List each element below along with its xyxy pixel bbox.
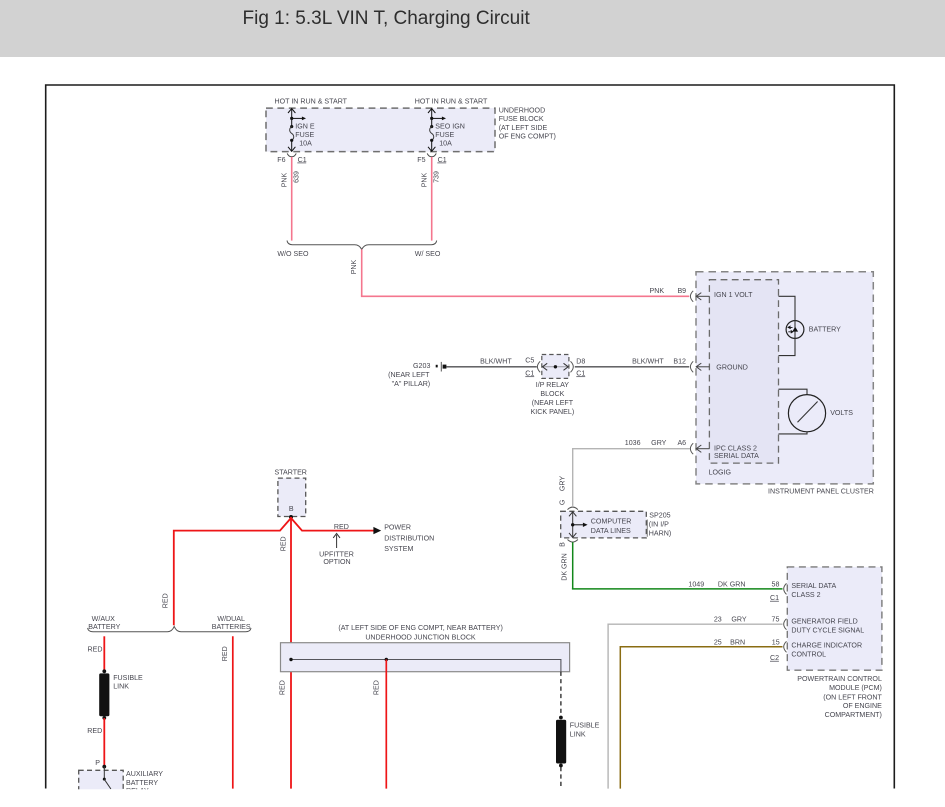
- svg-text:DISTRIBUTION: DISTRIBUTION: [384, 534, 434, 542]
- svg-text:W/ SEO: W/ SEO: [415, 250, 441, 258]
- svg-text:STARTER: STARTER: [274, 469, 306, 477]
- label RED (above branch): [334, 523, 349, 531]
- connector cavity under F6: [287, 153, 296, 156]
- svg-text:10A: 10A: [299, 140, 312, 148]
- svg-text:KICK PANEL): KICK PANEL): [531, 408, 575, 416]
- svg-text:G203: G203: [413, 362, 430, 370]
- svg-text:739: 739: [433, 171, 441, 183]
- label POWER DISTRIBUTION SYSTEM: [384, 524, 434, 554]
- svg-text:W/AUX: W/AUX: [92, 615, 116, 623]
- wire RED starter main vertical: [290, 517, 292, 789]
- svg-text:BLK/WHT: BLK/WHT: [632, 358, 664, 366]
- starter box: [278, 478, 306, 516]
- wire BRN to PCM 15: [620, 647, 782, 789]
- svg-text:639: 639: [293, 171, 301, 183]
- cluster logic inner box: [709, 280, 778, 463]
- pin A6 connector: [690, 443, 709, 454]
- svg-text:58: 58: [772, 580, 780, 588]
- pin label F6 C1: [277, 156, 306, 164]
- SP205 bottom connector arc: [568, 540, 578, 543]
- svg-text:C2: C2: [770, 654, 779, 662]
- label I/P RELAY BLOCK (NEAR LEFT KICK PANEL): [531, 381, 575, 416]
- svg-text:OF ENG COMPT): OF ENG COMPT): [499, 132, 556, 140]
- label STARTER: [274, 469, 306, 477]
- label FUSIBLE LINK: [113, 674, 143, 691]
- label BLK/WHT (left): [480, 358, 512, 366]
- svg-text:C1: C1: [525, 369, 534, 377]
- svg-text:(NEAR LEFT: (NEAR LEFT: [388, 371, 430, 379]
- underhood fuse block box: [266, 108, 495, 152]
- svg-text:(ON LEFT FRONT: (ON LEFT FRONT: [823, 693, 882, 701]
- label GROUND: [716, 363, 748, 371]
- wire PNK 739: [431, 157, 433, 241]
- pin 75 connector arc: [784, 619, 787, 630]
- svg-text:10A: 10A: [439, 140, 452, 148]
- label HOT IN RUN & START (left): [275, 98, 348, 106]
- label pin P: [95, 759, 100, 767]
- svg-text:RED: RED: [221, 646, 229, 661]
- label SERIAL DATA CLASS 2: [791, 582, 836, 599]
- svg-text:RED: RED: [87, 727, 102, 735]
- wire DK GRN vertical: [572, 542, 574, 589]
- svg-text:"A" PILLAR): "A" PILLAR): [392, 380, 431, 388]
- node fusible link 2 bottom: [559, 764, 563, 768]
- svg-text:SEO IGN: SEO IGN: [435, 123, 465, 131]
- wire RED junction to bottom: [385, 660, 387, 789]
- svg-text:23: 23: [714, 616, 722, 624]
- upfitter option arrow: [333, 534, 340, 549]
- label 739: [433, 171, 441, 183]
- svg-text:75: 75: [772, 616, 780, 624]
- label LOGIG: [709, 469, 731, 477]
- wire RED w/aux battery: [103, 636, 105, 671]
- svg-text:BATTERY: BATTERY: [809, 325, 841, 333]
- wire RED w/dual batteries: [232, 636, 234, 788]
- label RED (vertical, junction wire): [373, 680, 381, 695]
- label PNK B9: [650, 287, 687, 295]
- svg-text:F6: F6: [277, 156, 285, 164]
- wire BLK/WHT into B12 with label: [632, 358, 686, 366]
- svg-text:25: 25: [714, 639, 722, 647]
- svg-text:1049: 1049: [688, 580, 704, 588]
- label INSTRUMENT PANEL CLUSTER: [768, 488, 874, 496]
- svg-text:C1: C1: [576, 369, 585, 377]
- label GRY (vertical): [559, 476, 567, 492]
- svg-text:HOT IN RUN & START: HOT IN RUN & START: [415, 98, 488, 106]
- pin B12 connector: [690, 361, 709, 372]
- ground G203 stud symbol: [436, 362, 447, 372]
- svg-text:VOLTS: VOLTS: [830, 409, 853, 417]
- svg-text:GRY: GRY: [651, 439, 667, 447]
- svg-text:PNK: PNK: [350, 259, 358, 274]
- arrow to power distribution system: [373, 527, 381, 534]
- svg-text:(NEAR LEFT: (NEAR LEFT: [532, 399, 574, 407]
- svg-text:OF ENGINE: OF ENGINE: [843, 702, 882, 710]
- wire DK GRN horizontal to PCM 58: [572, 588, 783, 590]
- I/P relay block connector right arc: [571, 361, 574, 372]
- svg-text:POWER: POWER: [384, 524, 411, 532]
- relay switch inside: [103, 767, 111, 789]
- label DK GRN (vertical): [561, 553, 569, 581]
- svg-text:PNK: PNK: [280, 172, 288, 187]
- svg-text:B: B: [289, 505, 294, 513]
- svg-text:LINK: LINK: [570, 731, 586, 739]
- I/P relay block box: [542, 355, 569, 379]
- SP205 top connector arc: [568, 507, 578, 510]
- svg-text:C5: C5: [525, 356, 534, 364]
- svg-text:HARN): HARN): [649, 529, 671, 537]
- node fusible link top: [102, 669, 106, 673]
- svg-text:UNDERHOOD JUNCTION BLOCK: UNDERHOOD JUNCTION BLOCK: [365, 633, 476, 641]
- svg-text:G: G: [558, 500, 566, 506]
- label UPFITTER OPTION: [319, 550, 354, 566]
- wire BLK/WHT G203 to relay block: [446, 366, 536, 368]
- svg-text:P: P: [95, 759, 100, 767]
- svg-text:RED: RED: [278, 680, 286, 695]
- label pin G (vertical): [558, 500, 566, 506]
- svg-text:GROUND: GROUND: [716, 363, 748, 371]
- label UNDERHOOD FUSE BLOCK (AT LEFT SIDE OF ENG COMPT): [499, 107, 556, 141]
- label RED: [88, 645, 103, 653]
- svg-text:DUTY CYCLE SIGNAL: DUTY CYCLE SIGNAL: [791, 627, 864, 635]
- auxiliary battery relay box: [79, 770, 124, 794]
- label 639: [293, 171, 301, 183]
- pin B9 connector: [690, 291, 709, 302]
- svg-text:INSTRUMENT PANEL CLUSTER: INSTRUMENT PANEL CLUSTER: [768, 488, 874, 496]
- svg-text:SERIAL DATA: SERIAL DATA: [714, 452, 759, 460]
- svg-text:RED: RED: [334, 523, 349, 531]
- svg-text:GRY: GRY: [559, 476, 567, 492]
- label W/DUAL BATTERIES: [212, 615, 251, 631]
- node starter B terminal: [289, 515, 293, 519]
- svg-text:D8: D8: [576, 357, 585, 365]
- label RED: [87, 727, 102, 735]
- wire GRY to PCM 75: [608, 624, 782, 788]
- svg-text:GRY: GRY: [731, 616, 747, 624]
- svg-text:F5: F5: [417, 156, 425, 164]
- label CHARGE INDICATOR CONTROL: [791, 642, 862, 659]
- svg-text:W/O SEO: W/O SEO: [277, 250, 309, 258]
- svg-text:RED: RED: [373, 680, 381, 695]
- battery split brace: [88, 626, 251, 631]
- svg-text:BRN: BRN: [730, 639, 745, 647]
- svg-text:LOGIG: LOGIG: [709, 469, 731, 477]
- computer data lines box SP205: [561, 511, 647, 538]
- wire to battery indicator: [779, 296, 796, 355]
- svg-text:CONTROL: CONTROL: [791, 651, 826, 659]
- svg-text:COMPUTER: COMPUTER: [591, 518, 632, 526]
- svg-text:DK GRN: DK GRN: [718, 580, 746, 588]
- svg-text:DATA LINES: DATA LINES: [591, 527, 631, 535]
- label (AT LEFT SIDE OF ENG COMPT, NEAR BATTERY): [338, 624, 503, 632]
- svg-text:Fig 1: 5.3L VIN T, Charging Ci: Fig 1: 5.3L VIN T, Charging Circuit: [243, 8, 531, 29]
- pin label D8 C1: [576, 357, 585, 377]
- svg-text:1036: 1036: [625, 439, 641, 447]
- label 1036 GRY A6: [625, 439, 686, 447]
- page frame border: [46, 85, 895, 789]
- node junction red 2: [385, 658, 388, 661]
- svg-text:AUXILIARY: AUXILIARY: [126, 770, 163, 778]
- label HOT IN RUN & START (right): [415, 98, 488, 106]
- volts gauge: [788, 395, 825, 432]
- dashed wire below fusible link 2: [560, 767, 562, 789]
- I/P relay block connector left arc: [537, 361, 540, 372]
- svg-text:COMPARTMENT): COMPARTMENT): [825, 711, 882, 719]
- fuse F6 IGN E FUSE 10A: [288, 109, 315, 152]
- merge brace W/O SEO / W SEO: [287, 241, 437, 250]
- label UNDERHOOD JUNCTION BLOCK: [365, 633, 476, 641]
- pin 58 connector arc + label C1: [770, 583, 787, 601]
- label PNK (left of 739): [420, 172, 428, 187]
- svg-text:FUSE BLOCK: FUSE BLOCK: [499, 115, 544, 123]
- svg-text:LINK: LINK: [113, 682, 129, 690]
- clip-bottom: [0, 789, 945, 807]
- svg-text:IGN 1 VOLT: IGN 1 VOLT: [714, 291, 753, 299]
- svg-text:FUSE: FUSE: [435, 131, 454, 139]
- underhood junction block box: [281, 643, 570, 672]
- label IPC CLASS 2 SERIAL DATA: [714, 444, 759, 459]
- label POWERTRAIN CONTROL MODULE (PCM): [797, 675, 882, 719]
- svg-text:15: 15: [772, 639, 780, 647]
- node P terminal: [102, 765, 106, 769]
- svg-text:PNK: PNK: [420, 172, 428, 187]
- svg-text:I/P RELAY: I/P RELAY: [536, 381, 570, 389]
- svg-text:SERIAL DATA: SERIAL DATA: [791, 582, 836, 590]
- wire PNK vertical to elbow: [361, 249, 363, 296]
- fuse F5 SEO IGN FUSE 10A: [428, 109, 465, 152]
- svg-text:RED: RED: [88, 645, 103, 653]
- node junction red 1: [289, 658, 292, 661]
- svg-text:RED: RED: [162, 593, 170, 608]
- svg-text:FUSIBLE: FUSIBLE: [570, 722, 600, 730]
- node fusible link 2 top: [559, 716, 563, 720]
- svg-text:SYSTEM: SYSTEM: [384, 545, 413, 553]
- label SP205 (IN I/P HARN): [647, 512, 671, 538]
- wire RED branch left with chamfer: [174, 518, 291, 625]
- svg-text:(AT LEFT SIDE: (AT LEFT SIDE: [499, 124, 548, 132]
- wire PNK 639: [291, 157, 293, 241]
- label 1049 DK GRN 58: [688, 580, 779, 588]
- svg-text:B9: B9: [677, 287, 686, 295]
- label GENERATOR FIELD DUTY CYCLE SIGNAL: [791, 618, 864, 635]
- wire BLK/WHT relay block to cluster: [575, 366, 689, 368]
- label FUSIBLE LINK: [570, 722, 600, 739]
- svg-text:HOT IN RUN & START: HOT IN RUN & START: [275, 98, 348, 106]
- wire to volts gauge: [779, 389, 808, 434]
- label W/ SEO: [415, 250, 441, 258]
- svg-text:(AT LEFT SIDE OF ENG COMPT, NE: (AT LEFT SIDE OF ENG COMPT, NEAR BATTERY…: [338, 624, 503, 632]
- label RED (vertical): [221, 646, 229, 661]
- label VOLTS: [830, 409, 853, 417]
- svg-text:A6: A6: [677, 439, 686, 447]
- label W/O SEO: [277, 250, 309, 258]
- svg-text:FUSE: FUSE: [295, 131, 314, 139]
- header bar: [0, 0, 945, 57]
- label PNK (vertical): [350, 259, 358, 274]
- wire PNK horizontal to cluster: [361, 295, 689, 297]
- label BATTERY: [809, 325, 841, 333]
- svg-text:BATTERY: BATTERY: [88, 623, 120, 631]
- pin 15 connector arc + label C2: [770, 641, 787, 662]
- wire RED below fusible link: [103, 718, 105, 766]
- svg-text:IGN E: IGN E: [295, 123, 315, 131]
- label pin B: [289, 505, 294, 513]
- svg-text:W/DUAL: W/DUAL: [217, 615, 245, 623]
- label RED (vertical, starter wire): [279, 536, 287, 551]
- label pin B (vertical): [558, 542, 566, 547]
- dashed link wire from junction block: [560, 672, 562, 716]
- wire RED branch right to power distribution: [291, 518, 375, 531]
- powertrain control module box: [787, 567, 882, 670]
- svg-text:(IN I/P: (IN I/P: [649, 521, 669, 529]
- instrument panel cluster outer box: [696, 272, 873, 484]
- svg-text:POWERTRAIN CONTROL: POWERTRAIN CONTROL: [797, 675, 882, 683]
- label PNK (left of 639): [280, 172, 288, 187]
- svg-text:DK GRN: DK GRN: [561, 553, 569, 581]
- fusible link F1: [99, 673, 109, 716]
- svg-text:BATTERIES: BATTERIES: [212, 623, 251, 631]
- svg-text:OPTION: OPTION: [323, 558, 350, 566]
- label AUXILIARY BATTERY RELAY: [126, 770, 163, 795]
- label W/AUX BATTERY: [88, 615, 120, 631]
- svg-text:BLK/WHT: BLK/WHT: [480, 358, 512, 366]
- label RED (vertical, starter below block): [278, 680, 286, 695]
- label 25 BRN 15: [714, 639, 780, 647]
- node fusible link bottom: [102, 716, 106, 720]
- svg-text:GENERATOR FIELD: GENERATOR FIELD: [791, 618, 857, 626]
- label G203 (NEAR LEFT "A" PILLAR): [388, 362, 430, 388]
- svg-text:BATTERY: BATTERY: [126, 779, 158, 787]
- junction block bus bar: [291, 660, 561, 672]
- label 23 GRY 75: [714, 616, 780, 624]
- wire GRY from cluster A6: [573, 449, 690, 506]
- svg-text:B: B: [558, 542, 566, 547]
- fusible link F2: [556, 720, 566, 764]
- svg-text:UNDERHOOD: UNDERHOOD: [499, 107, 546, 115]
- svg-text:PNK: PNK: [650, 287, 665, 295]
- svg-text:BLOCK: BLOCK: [540, 390, 564, 398]
- svg-text:B12: B12: [673, 358, 686, 366]
- label RED (vertical, left branch): [162, 593, 170, 608]
- svg-text:C1: C1: [770, 594, 779, 602]
- pin label C5 C1: [525, 356, 534, 377]
- label IGN 1 VOLT: [714, 291, 753, 299]
- svg-text:MODULE (PCM): MODULE (PCM): [829, 684, 882, 692]
- svg-text:CHARGE INDICATOR: CHARGE INDICATOR: [791, 642, 862, 650]
- pin label F5 C1: [417, 156, 446, 164]
- svg-text:RED: RED: [279, 536, 287, 551]
- svg-text:SP205: SP205: [649, 512, 670, 520]
- battery indicator lamp: [786, 321, 804, 339]
- svg-text:CLASS 2: CLASS 2: [791, 591, 820, 599]
- svg-text:FUSIBLE: FUSIBLE: [113, 674, 143, 682]
- svg-text:UPFITTER: UPFITTER: [319, 550, 354, 558]
- connector cavity under F5: [427, 153, 436, 156]
